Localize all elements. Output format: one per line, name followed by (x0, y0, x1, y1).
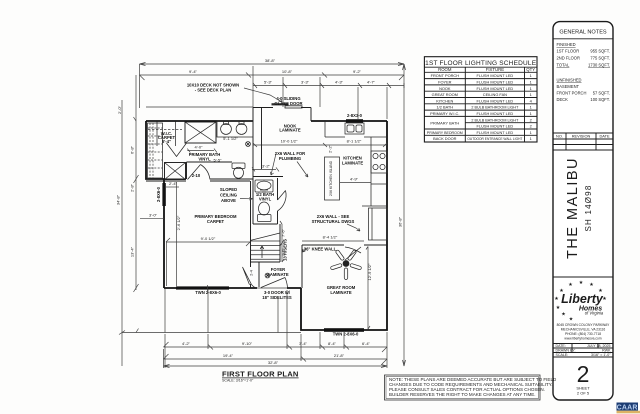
svg-text:★: ★ (568, 282, 573, 288)
svg-text:4'-9": 4'-9" (350, 177, 359, 182)
svg-text:4'-3": 4'-3" (335, 80, 344, 85)
svg-text:9'-0 1/2": 9'-0 1/2" (201, 236, 216, 241)
svg-text:2 BULB BATHROOM LIGHT: 2 BULB BATHROOM LIGHT (471, 117, 519, 122)
svg-text:5'-5": 5'-5" (214, 158, 223, 163)
svg-text:NO.: NO. (556, 134, 563, 139)
svg-text:REVISION: REVISION (572, 134, 591, 139)
svg-text:PLUMBING: PLUMBING (279, 156, 301, 161)
svg-text:5'-1 1/2": 5'-1 1/2" (223, 136, 238, 141)
svg-text:VINYL: VINYL (259, 197, 272, 202)
svg-text:NOOK: NOOK (439, 86, 451, 91)
svg-text:CEILING: CEILING (220, 193, 237, 198)
svg-text:2: 2 (530, 124, 532, 129)
svg-text:955 SQFT.: 955 SQFT. (590, 49, 610, 54)
svg-text:- SEE DECK PLAN: - SEE DECK PLAN (195, 88, 232, 93)
svg-text:3'-4": 3'-4" (299, 341, 308, 346)
svg-text:100 SQFT.: 100 SQFT. (590, 97, 610, 102)
svg-text:4'-0": 4'-0" (195, 145, 204, 150)
svg-text:PHONE: (804) 730-7718: PHONE: (804) 730-7718 (565, 332, 601, 336)
svg-text:2'-0": 2'-0" (117, 105, 122, 114)
svg-text:1: 1 (530, 130, 532, 135)
svg-text:34'-8": 34'-8" (116, 194, 121, 205)
svg-text:FINISHED: FINISHED (557, 42, 576, 47)
svg-text:2 BULB BATHROOM LIGHT: 2 BULB BATHROOM LIGHT (471, 105, 519, 110)
svg-text:★: ★ (554, 296, 559, 302)
svg-text:1: 1 (530, 111, 532, 116)
svg-text:2'-6": 2'-6" (281, 248, 286, 257)
svg-text:1/2 BATH: 1/2 BATH (437, 105, 454, 110)
svg-text:2'-4": 2'-4" (169, 181, 178, 186)
svg-text:PRIMARY BATH: PRIMARY BATH (430, 120, 459, 125)
svg-text:19'-4": 19'-4" (223, 353, 234, 358)
svg-text:LAMINATE: LAMINATE (279, 127, 301, 132)
svg-text:9'-4": 9'-4" (189, 69, 198, 74)
svg-text:2X6 KITCHEN ISLAND: 2X6 KITCHEN ISLAND (329, 160, 333, 196)
svg-text:5'-4": 5'-4" (162, 139, 171, 144)
svg-text:www.libertyhomesva.com: www.libertyhomesva.com (564, 337, 601, 341)
svg-text:2ND FLOOR: 2ND FLOOR (557, 56, 580, 61)
svg-text:FLUSH MOUNT LED: FLUSH MOUNT LED (477, 111, 514, 116)
svg-text:CARPET: CARPET (207, 219, 225, 224)
svg-text:6'-8": 6'-8" (130, 145, 135, 154)
svg-text:DECK: DECK (557, 97, 569, 102)
svg-text:4'-2": 4'-2" (182, 341, 191, 346)
svg-text:SH 14Ø98: SH 14Ø98 (584, 185, 593, 232)
svg-text:ABOVE: ABOVE (221, 198, 236, 203)
svg-text:DATE:: DATE: (556, 344, 566, 348)
svg-text:Liberty: Liberty (561, 292, 604, 306)
svg-text:DATE: DATE (599, 134, 609, 139)
svg-text:FIXTURE: FIXTURE (486, 67, 505, 72)
svg-text:7'-6": 7'-6" (281, 228, 286, 237)
svg-text:MECHANICSVILLE, VA 23116: MECHANICSVILLE, VA 23116 (561, 328, 606, 332)
svg-text:6'-4": 6'-4" (362, 341, 371, 346)
svg-text:FOYER: FOYER (438, 80, 452, 85)
svg-text:775 SQFT.: 775 SQFT. (590, 56, 610, 61)
svg-text:GENERAL NOTES: GENERAL NOTES (559, 30, 607, 36)
svg-text:TOTAL: TOTAL (557, 63, 571, 68)
svg-text:2 OF 5: 2 OF 5 (577, 391, 590, 396)
svg-text:2-4: 2-4 (249, 269, 254, 276)
svg-text:JULY 18, 2025: JULY 18, 2025 (587, 344, 610, 348)
svg-text:TWN 2-8X6-0: TWN 2-8X6-0 (195, 290, 221, 295)
svg-text:2'-2": 2'-2" (328, 144, 333, 153)
svg-text:1: 1 (530, 80, 532, 85)
svg-text:FLUSH MOUNT LED: FLUSH MOUNT LED (477, 73, 514, 78)
svg-text:10'-8": 10'-8" (282, 69, 293, 74)
svg-text:36" KNEE WALL: 36" KNEE WALL (304, 247, 337, 252)
svg-text:BUILDER RESERVES THE RIGHT TO: BUILDER RESERVES THE RIGHT TO MAKE CHANG… (389, 392, 536, 397)
svg-text:OUTDOOR ENTRANCE WALL LIGHT: OUTDOOR ENTRANCE WALL LIGHT (467, 136, 523, 141)
svg-text:1: 1 (530, 86, 532, 91)
svg-text:PRIMARY W.I.C.: PRIMARY W.I.C. (430, 111, 459, 116)
svg-text:1730 SQFT.: 1730 SQFT. (588, 63, 610, 68)
svg-text:1: 1 (530, 92, 532, 97)
svg-text:★: ★ (589, 282, 594, 288)
svg-text:8'-4": 8'-4" (328, 341, 337, 346)
svg-text:FLUSH MOUNT LED: FLUSH MOUNT LED (477, 98, 514, 103)
svg-text:3'-3": 3'-3" (301, 80, 310, 85)
svg-text:GREAT ROOM: GREAT ROOM (432, 92, 458, 97)
svg-text:QTY: QTY (526, 67, 535, 72)
svg-text:21'-8": 21'-8" (334, 353, 345, 358)
svg-text:of Virginia: of Virginia (585, 311, 604, 316)
svg-text:★: ★ (556, 305, 561, 311)
svg-text:FIRST FLOOR PLAN: FIRST FLOOR PLAN (222, 370, 299, 379)
svg-text:3/16" = 1'-0": 3/16" = 1'-0" (591, 353, 611, 357)
svg-text:9'-2": 9'-2" (353, 69, 362, 74)
svg-text:★: ★ (561, 311, 566, 317)
svg-text:LAMINATE: LAMINATE (342, 161, 364, 166)
svg-text:STRUCTURAL DWGS: STRUCTURAL DWGS (312, 219, 355, 224)
svg-text:LAMINATE: LAMINATE (330, 290, 352, 295)
svg-text:★: ★ (579, 280, 584, 286)
svg-text:9'-10": 9'-10" (242, 341, 253, 346)
svg-text:UNFINISHED: UNFINISHED (557, 78, 582, 83)
svg-text:57 SQFT.: 57 SQFT. (593, 91, 610, 96)
svg-text:2-8X6-0: 2-8X6-0 (156, 186, 161, 202)
svg-text:PRIMARY BEDROOM: PRIMARY BEDROOM (427, 130, 463, 135)
svg-text:FRONT PORCH: FRONT PORCH (431, 73, 460, 78)
svg-text:THE MALIBU: THE MALIBU (565, 157, 581, 259)
svg-text:3'-2": 3'-2" (262, 164, 271, 169)
svg-text:BASEMENT: BASEMENT (557, 84, 580, 89)
svg-text:SLOPED: SLOPED (220, 187, 237, 192)
svg-text:5'-3": 5'-3" (264, 80, 273, 85)
svg-text:LAMINATE: LAMINATE (267, 272, 289, 277)
svg-text:1: 1 (530, 73, 532, 78)
svg-text:RWK: RWK (602, 349, 611, 353)
svg-text:2'-8": 2'-8" (130, 183, 135, 192)
svg-text:8'-1 1/2": 8'-1 1/2" (347, 139, 362, 144)
svg-text:FLUSH MOUNT LED: FLUSH MOUNT LED (477, 86, 514, 91)
svg-text:1: 1 (530, 105, 532, 110)
svg-text:FLUSH MOUNT LED: FLUSH MOUNT LED (477, 80, 514, 85)
svg-text:12'-9 1/2": 12'-9 1/2" (367, 263, 372, 280)
svg-text:32'-8": 32'-8" (268, 360, 279, 365)
svg-text:★: ★ (602, 296, 607, 302)
svg-text:SCALE: 3/16"=1'-0": SCALE: 3/16"=1'-0" (222, 379, 254, 383)
svg-text:1: 1 (530, 136, 532, 141)
svg-text:SCALE:: SCALE: (556, 353, 569, 357)
svg-text:ROOM: ROOM (438, 67, 452, 72)
svg-text:8'-4 1/2": 8'-4 1/2" (323, 235, 338, 240)
svg-text:2-10: 2-10 (192, 173, 201, 178)
svg-text:2-8X3-0: 2-8X3-0 (347, 113, 363, 118)
svg-text:1ST FLOOR: 1ST FLOOR (557, 49, 580, 54)
svg-text:FLUSH MOUNT LED: FLUSH MOUNT LED (477, 124, 514, 129)
svg-text:4'-7": 4'-7" (367, 80, 376, 85)
svg-text:GLASS DOOR: GLASS DOOR (274, 101, 302, 106)
svg-text:2: 2 (530, 117, 532, 122)
svg-text:BACK DOOR: BACK DOOR (433, 136, 457, 141)
svg-text:1ST FLOOR LIGHTING SCHEDULE: 1ST FLOOR LIGHTING SCHEDULE (425, 60, 537, 67)
svg-text:13'-4": 13'-4" (130, 246, 135, 257)
svg-text:★: ★ (569, 316, 574, 322)
svg-text:KITCHEN: KITCHEN (436, 98, 453, 103)
svg-text:VINYL: VINYL (198, 157, 211, 162)
svg-text:38'-8": 38'-8" (265, 58, 276, 63)
svg-text:FLUSH MOUNT LED: FLUSH MOUNT LED (477, 130, 514, 135)
svg-text:3'-0": 3'-0" (149, 213, 158, 218)
svg-text:FRONT PORCH: FRONT PORCH (557, 91, 587, 96)
svg-text:TWN 2-8X6-0: TWN 2-8X6-0 (333, 332, 359, 337)
svg-text:2: 2 (577, 361, 590, 387)
svg-text:CEILING FAN: CEILING FAN (483, 92, 507, 97)
svg-text:18" SIDELITES: 18" SIDELITES (262, 295, 292, 300)
svg-text:DRAWN BY:: DRAWN BY: (556, 349, 576, 353)
svg-text:8045 CROWN COLONY PARKWAY: 8045 CROWN COLONY PARKWAY (557, 323, 610, 327)
svg-text:CAAR: CAAR (617, 404, 638, 411)
svg-text:10'-0 1/2": 10'-0 1/2" (281, 139, 298, 144)
svg-text:36'-8": 36'-8" (398, 216, 403, 227)
